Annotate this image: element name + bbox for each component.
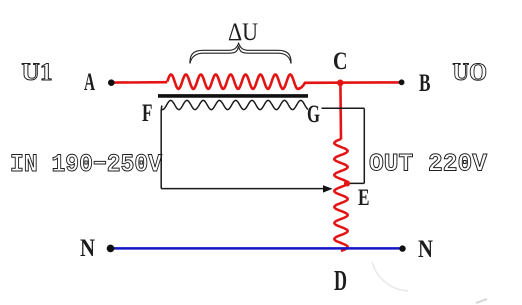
svg-text:G: G — [307, 101, 320, 128]
wire bottom of input box to wiper — [161, 188, 325, 190]
watermark arc — [372, 262, 408, 291]
svg-text:A: A — [84, 69, 95, 96]
wiper arrowhead at E — [323, 185, 333, 192]
svg-text:F: F — [142, 100, 153, 127]
junction dot C (red) — [337, 80, 344, 87]
secondary winding coil F-G (black) — [162, 100, 308, 109]
wire G to right tap — [322, 107, 365, 109]
terminal dot A — [108, 79, 115, 86]
svg-text:D: D — [334, 266, 347, 297]
wiper dot E (red) — [344, 180, 350, 186]
svg-text:E: E — [358, 185, 370, 210]
svg-text:IN 190−250V: IN 190−250V — [10, 150, 162, 179]
wire F down left side — [160, 110, 162, 189]
brace over primary winding (inner line) — [190, 46, 291, 63]
transformer core bar — [158, 94, 308, 98]
wire F elbow — [160, 106, 163, 111]
svg-text:B: B — [419, 70, 431, 97]
wire C down to regulator coil (red) — [339, 83, 342, 140]
svg-text:U1: U1 — [22, 59, 53, 86]
svg-text:ΔU: ΔU — [228, 19, 258, 46]
svg-text:N: N — [80, 235, 95, 262]
terminal dot N left — [107, 245, 115, 253]
regulator winding C-E-D vertical (red) — [334, 139, 347, 251]
terminal dot B — [399, 79, 405, 85]
svg-text:OUT 220V: OUT 220V — [369, 149, 487, 178]
svg-text:N: N — [418, 236, 433, 263]
brace over primary winding (outer line) — [190, 43, 291, 63]
watermark slash — [476, 299, 487, 303]
svg-text:UO: UO — [453, 59, 488, 86]
neutral line N-N (blue) — [112, 247, 402, 250]
wire tap to node E — [348, 182, 364, 184]
primary winding coil A-C (red) and wire to B — [167, 75, 401, 89]
wire A to primary coil (red) — [112, 81, 167, 84]
wire right tap down — [363, 108, 365, 183]
terminal dot N right — [399, 245, 405, 251]
svg-text:C: C — [333, 48, 348, 75]
